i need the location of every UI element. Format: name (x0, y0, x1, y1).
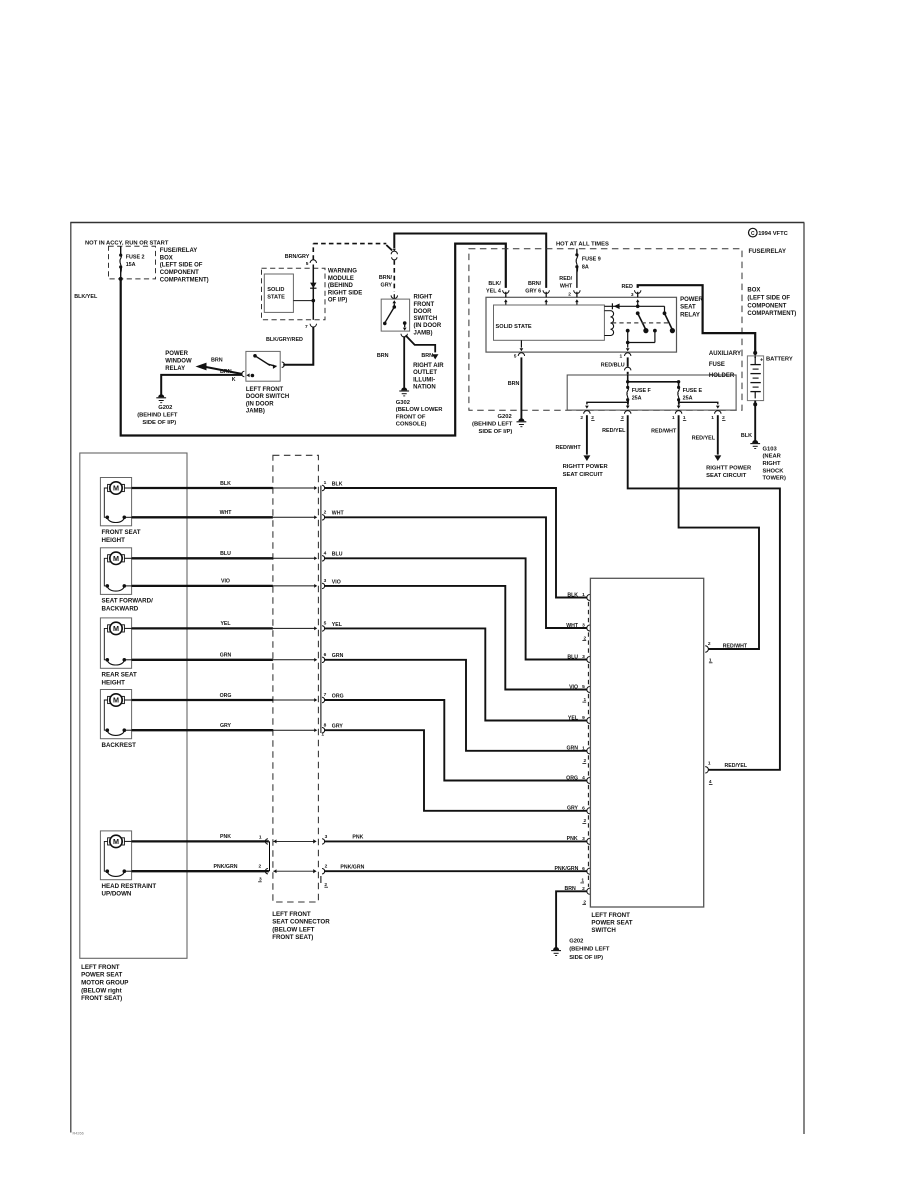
wire BLK battery to ground G103 (754, 401, 756, 442)
wire PNK/GRN motor5 to connector (132, 870, 269, 872)
svg-text:4: 4 (582, 775, 585, 781)
svg-text:1: 1 (582, 592, 585, 598)
fuse F2 (120, 246, 122, 255)
svg-text:(BELOW LEFT: (BELOW LEFT (272, 926, 314, 933)
wire BLK/YEL from fuse 2 down and around to relay pin 4 (121, 244, 506, 436)
svg-text:RIGHTT POWER: RIGHTT POWER (563, 464, 609, 470)
svg-text:BLU: BLU (220, 551, 231, 557)
svg-text:GRY: GRY (567, 806, 579, 812)
svg-text:BRN: BRN (508, 381, 520, 387)
svg-text:(IN DOOR: (IN DOOR (414, 323, 442, 329)
svg-text:RIGHT: RIGHT (414, 295, 433, 301)
svg-text:1: 1 (620, 354, 623, 360)
svg-text:TOWER): TOWER) (763, 476, 786, 482)
wire from door switch to warning module pin 7 (283, 327, 313, 365)
svg-text:SHOCK: SHOCK (763, 468, 785, 474)
pin 7 connector warning module (310, 324, 316, 327)
svg-text:DOOR SWITCH: DOOR SWITCH (246, 394, 289, 400)
svg-text:BOX: BOX (747, 288, 760, 294)
svg-text:VIO: VIO (569, 684, 578, 690)
svg-text:BLK/: BLK/ (488, 281, 501, 287)
svg-text:PNK/GRN: PNK/GRN (214, 864, 238, 870)
svg-text:(BELOW LOWER: (BELOW LOWER (396, 407, 444, 413)
svg-text:PNK/GRN: PNK/GRN (340, 864, 364, 870)
svg-text:(LEFT SIDE OF: (LEFT SIDE OF (160, 263, 203, 269)
svg-text:8A: 8A (582, 264, 589, 270)
wire BRN to power window relay (arrow) (204, 367, 242, 374)
wire PNK motor5 to connector (132, 840, 269, 842)
svg-text:RELAY: RELAY (165, 366, 185, 372)
svg-text:RED/YEL: RED/YEL (692, 435, 716, 441)
svg-text:R4266: R4266 (73, 1132, 84, 1136)
ground G202 (left) (158, 394, 164, 397)
wire BRN/GRY from relay pin 6 to junction connector (394, 234, 546, 288)
svg-text:SOLID STATE: SOLID STATE (496, 324, 532, 330)
connector pin 4 (322, 556, 325, 561)
svg-text:BLK: BLK (567, 592, 578, 598)
svg-text:4: 4 (324, 551, 327, 557)
wire ORG inside connector (273, 699, 315, 701)
svg-text:(BEHIND LEFT: (BEHIND LEFT (569, 947, 610, 953)
svg-text:3: 3 (582, 654, 585, 660)
svg-text:G202: G202 (498, 414, 512, 420)
wire YEL connector to switch pin (324, 628, 587, 720)
svg-text:BRN/: BRN/ (379, 275, 393, 281)
svg-text:25A: 25A (632, 396, 642, 402)
fuse/relay box (left, dashed) (109, 246, 156, 279)
copyright (749, 228, 758, 237)
svg-text:COMPARTMENT): COMPARTMENT) (747, 311, 796, 317)
warning module box (dashed) (262, 268, 326, 320)
wire GRY connector to switch pin (324, 730, 587, 811)
fuse E 25A (677, 386, 680, 389)
svg-text:FUSE/RELAY: FUSE/RELAY (160, 248, 197, 254)
svg-text:WARNING: WARNING (328, 269, 357, 275)
svg-text:5: 5 (514, 354, 517, 360)
svg-text:LEFT FRONT: LEFT FRONT (591, 912, 630, 919)
svg-text:RED/WHT: RED/WHT (651, 428, 677, 434)
svg-text:GRY: GRY (332, 724, 344, 730)
svg-text:POWER: POWER (680, 297, 703, 303)
wire RED from relay pin 3 to battery (638, 285, 756, 353)
svg-text:SIDE OF I/P): SIDE OF I/P) (569, 955, 603, 961)
svg-text:FUSE 2: FUSE 2 (126, 255, 145, 261)
svg-text:+: + (760, 357, 763, 363)
svg-text:7: 7 (305, 324, 308, 330)
svg-text:ORG: ORG (566, 775, 578, 781)
wire BLK inside connector (273, 487, 315, 489)
ground G202 (center) (518, 418, 524, 421)
svg-text:POWER SEAT: POWER SEAT (591, 920, 632, 927)
svg-text:M: M (113, 484, 119, 493)
fuse F 25A (627, 382, 629, 388)
connector pin 5 (322, 626, 325, 631)
svg-text:RED/YEL: RED/YEL (725, 763, 748, 769)
motor M3 rear seat height (100, 618, 131, 668)
svg-text:7: 7 (324, 692, 327, 698)
svg-text:FUSE F: FUSE F (632, 388, 652, 394)
wire BLK connector to switch pin (324, 488, 587, 598)
connector bracket line (right) (320, 486, 322, 734)
wire RED/YEL arrow to right power seat circuit (right) (717, 415, 719, 454)
svg-text:LEFT FRONT: LEFT FRONT (81, 964, 120, 971)
svg-text:M: M (113, 696, 119, 705)
wire GRY inside connector (273, 729, 315, 731)
connector left bracket (pnk pair) (269, 841, 271, 871)
svg-text:2: 2 (582, 886, 585, 892)
wire GRY motor to connector (132, 729, 273, 731)
svg-text:5: 5 (582, 684, 585, 690)
switch right pin 1 RED/YEL (705, 767, 708, 773)
svg-text:LEFT FRONT: LEFT FRONT (272, 911, 311, 918)
svg-text:GRN: GRN (220, 653, 232, 659)
svg-text:RIGHT AIR: RIGHT AIR (413, 363, 444, 369)
svg-text:JAMB): JAMB) (246, 409, 265, 415)
left front seat connector box (dashed) (273, 455, 319, 902)
svg-text:BLK: BLK (741, 433, 752, 439)
svg-text:FUSE E: FUSE E (683, 388, 703, 394)
svg-text:WINDOW: WINDOW (165, 359, 192, 365)
svg-text:POWER SEAT: POWER SEAT (81, 972, 122, 979)
svg-text:RIGHT SIDE: RIGHT SIDE (328, 290, 362, 296)
svg-text:6: 6 (582, 805, 585, 811)
wire BLK motor to connector (132, 487, 273, 489)
wire GRN inside connector (273, 659, 315, 661)
svg-text:WHT: WHT (560, 284, 573, 290)
svg-text:OUTLET: OUTLET (413, 370, 437, 376)
relay switch 1 (636, 311, 640, 315)
svg-text:3: 3 (582, 836, 585, 842)
svg-text:RIGHTT POWER: RIGHTT POWER (706, 465, 752, 471)
left front power seat switch box (590, 578, 703, 907)
svg-text:RED/WHT: RED/WHT (556, 445, 582, 451)
svg-text:RELAY: RELAY (680, 312, 700, 318)
wire VIO connector to switch pin (324, 586, 587, 690)
battery (753, 351, 757, 355)
svg-text:M: M (113, 837, 119, 846)
wire BLU inside connector (273, 557, 315, 559)
svg-text:BOX: BOX (160, 255, 173, 261)
svg-text:ORG: ORG (220, 693, 232, 699)
relay pin 5 internal (520, 340, 522, 347)
solid state box (264, 274, 293, 312)
svg-text:BLU: BLU (567, 654, 578, 660)
svg-text:RED: RED (622, 284, 633, 290)
connector pin 7 (322, 697, 325, 702)
svg-text:BRN: BRN (565, 886, 576, 892)
motor M4 backrest (100, 690, 131, 739)
svg-text:3: 3 (325, 834, 328, 840)
svg-text:COMPARTMENT): COMPARTMENT) (160, 277, 209, 283)
svg-text:HEIGHT: HEIGHT (102, 679, 126, 686)
svg-text:HEIGHT: HEIGHT (102, 537, 126, 544)
svg-text:2: 2 (580, 415, 583, 421)
auxiliary fuse holder box (567, 375, 736, 410)
svg-text:GRY: GRY (220, 723, 232, 729)
svg-text:5: 5 (324, 621, 327, 627)
motor M5 head restraint up/down (100, 831, 131, 880)
svg-text:SEAT FORWARD/: SEAT FORWARD/ (102, 598, 154, 605)
fuse holder bottom connectors + pin numbers (584, 411, 590, 414)
wire RED/YEL long run to switch pin 1 (628, 415, 780, 770)
svg-text:BACKWARD: BACKWARD (102, 605, 139, 612)
fuse F9 (576, 249, 578, 255)
wire YEL motor to connector (132, 627, 273, 629)
svg-text:(BEHIND LEFT: (BEHIND LEFT (137, 413, 178, 419)
svg-text:2: 2 (708, 641, 711, 647)
svg-text:BACKREST: BACKREST (102, 742, 137, 749)
relay top pin connectors 4 6 2 3 (503, 290, 509, 293)
svg-text:FRONT SEAT): FRONT SEAT) (272, 934, 313, 941)
connector pin 6 (322, 657, 325, 662)
svg-text:G302: G302 (396, 400, 410, 406)
svg-text:2: 2 (324, 510, 327, 516)
svg-text:5: 5 (306, 261, 309, 267)
svg-text:FUSE 9: FUSE 9 (582, 257, 601, 263)
svg-text:BLK/GRY/RED: BLK/GRY/RED (266, 337, 303, 343)
relay internal pin arrows (504, 299, 507, 302)
svg-text:FUSE: FUSE (709, 362, 725, 368)
wire VIO motor to connector (132, 585, 273, 587)
svg-text:HEAD RESTRAINT: HEAD RESTRAINT (102, 883, 157, 890)
svg-text:SIDE OF I/P): SIDE OF I/P) (478, 429, 512, 435)
svg-text:VIO: VIO (221, 579, 230, 585)
svg-text:PNK: PNK (220, 834, 231, 840)
svg-text:2: 2 (325, 863, 328, 869)
relay coil (604, 310, 610, 312)
svg-text:SOLID: SOLID (267, 287, 284, 293)
wire YEL inside connector (273, 627, 315, 629)
switch BRN pin wire to ground G202 (556, 891, 587, 948)
pin 5 connector warning module (310, 260, 316, 263)
svg-text:GRY 6: GRY 6 (525, 289, 541, 295)
svg-text:(BEHIND LEFT: (BEHIND LEFT (472, 422, 513, 428)
page frame (70, 223, 72, 1133)
svg-text:OF I/P): OF I/P) (328, 298, 347, 304)
svg-text:3: 3 (582, 623, 585, 629)
svg-text:AUXILIARY: AUXILIARY (709, 351, 741, 357)
svg-text:15A: 15A (126, 262, 136, 268)
wire RED/WHT arrow to right power seat circuit (left) (586, 415, 588, 454)
svg-text:YEL 4: YEL 4 (486, 289, 501, 295)
wire BRN to ground G302 (403, 336, 405, 388)
svg-text:SEAT: SEAT (680, 305, 696, 311)
svg-text:1: 1 (259, 834, 262, 840)
wire ORG connector to switch pin (324, 700, 587, 781)
warning module internal wire + diode (312, 265, 314, 320)
svg-text:(NEAR: (NEAR (763, 454, 782, 460)
svg-text:MODULE: MODULE (328, 276, 354, 282)
svg-text:NOT IN ACCY, RUN OR START: NOT IN ACCY, RUN OR START (85, 240, 169, 246)
right front door switch connector (391, 295, 397, 298)
svg-text:RED/YEL: RED/YEL (602, 428, 626, 434)
svg-text:PNK: PNK (352, 835, 363, 841)
relay pin 5 connector + BRN wire to G202 (518, 353, 524, 356)
svg-text:PNK/GRN: PNK/GRN (554, 866, 578, 872)
svg-text:VIO: VIO (332, 579, 341, 585)
svg-text:K: K (232, 377, 236, 383)
svg-text:SEAT CIRCUIT: SEAT CIRCUIT (706, 473, 747, 479)
svg-text:BRN: BRN (220, 369, 232, 375)
svg-text:1: 1 (582, 745, 585, 751)
svg-text:BATTERY: BATTERY (766, 357, 793, 363)
wire WHT inside connector (273, 516, 315, 518)
svg-text:SWITCH: SWITCH (591, 927, 616, 934)
motor M2 seat forward/backward (100, 548, 131, 595)
inline connector (junction) (391, 251, 397, 254)
svg-text:RED/WHT: RED/WHT (723, 643, 748, 649)
svg-text:6: 6 (324, 652, 327, 658)
svg-text:BLK/YEL: BLK/YEL (74, 294, 98, 300)
wire BLU motor to connector (132, 557, 273, 559)
svg-text:C: C (751, 231, 755, 237)
svg-text:WHT: WHT (566, 623, 579, 629)
wire VIO inside connector (273, 585, 315, 587)
wire RED/WHT long run to switch pin 2 (679, 415, 759, 649)
svg-text:FRONT: FRONT (414, 302, 435, 308)
svg-text:POWER: POWER (165, 351, 188, 357)
relay switch 2 (664, 306, 666, 313)
switch right pin 2 RED/WHT (705, 646, 708, 652)
connector pin 2 (322, 515, 325, 520)
wire PNK connector to switch (324, 840, 587, 842)
ground G302 (401, 387, 407, 390)
wire GRN motor to connector (132, 659, 273, 661)
left front door switch (246, 351, 280, 381)
svg-text:25A: 25A (683, 396, 693, 402)
svg-text:SEAT CIRCUIT: SEAT CIRCUIT (563, 472, 604, 478)
svg-text:G202: G202 (158, 405, 172, 411)
svg-text:FRONT OF: FRONT OF (396, 414, 426, 420)
wire PNK/GRN connector to switch (324, 870, 587, 872)
ground G202 (bottom) (553, 947, 559, 950)
svg-text:GRY: GRY (381, 282, 393, 288)
relay mechanical link (dashed) (612, 322, 668, 324)
relay pin 1 connector + RED/BLU wire (625, 353, 631, 356)
svg-text:REAR SEAT: REAR SEAT (102, 672, 138, 679)
svg-text:(BELOW right: (BELOW right (81, 987, 122, 994)
relay diode (604, 305, 664, 307)
svg-text:SWITCH: SWITCH (414, 316, 438, 322)
svg-text:YEL: YEL (332, 622, 343, 628)
wire ORG motor to connector (132, 699, 273, 701)
svg-text:JAMB): JAMB) (414, 330, 433, 336)
svg-text:BRN: BRN (377, 353, 389, 359)
connector pin 3 (322, 583, 325, 588)
motor M1 front seat height (100, 478, 131, 526)
svg-text:HOLDER: HOLDER (709, 373, 735, 379)
fuse E output branches (678, 400, 680, 405)
right front door switch (381, 299, 409, 331)
svg-text:8: 8 (324, 722, 327, 728)
svg-text:YEL: YEL (220, 621, 231, 627)
svg-text:GRN: GRN (332, 653, 344, 659)
svg-text:M: M (113, 624, 119, 633)
dashed wire BRN/GRY down to right front door switch (393, 260, 395, 291)
svg-text:COMPONENT: COMPONENT (160, 270, 199, 276)
svg-text:(LEFT SIDE OF: (LEFT SIDE OF (747, 295, 790, 301)
switch left edge connector arcs + bracket (587, 595, 590, 601)
svg-text:COMPONENT: COMPONENT (747, 303, 786, 309)
svg-text:9: 9 (582, 715, 585, 721)
svg-text:WHT: WHT (332, 511, 345, 517)
svg-text:BRN: BRN (211, 358, 223, 364)
ground G103 (752, 440, 758, 443)
wire BRN to ground G202 (161, 375, 242, 396)
solid state box (relay) (494, 305, 605, 340)
svg-text:1: 1 (708, 760, 711, 766)
svg-text:HOT AT ALL TIMES: HOT AT ALL TIMES (556, 242, 609, 248)
svg-text:STATE: STATE (267, 294, 285, 300)
svg-text:ORG: ORG (332, 693, 344, 699)
svg-text:G103: G103 (763, 446, 778, 452)
left front power seat motor group box (80, 453, 187, 958)
dashed wire BRN/GRY from warning module to junction (312, 244, 314, 260)
svg-text:M: M (113, 554, 119, 563)
svg-text:G202: G202 (569, 938, 583, 944)
svg-text:RED/BLU: RED/BLU (601, 362, 625, 368)
svg-text:BLU: BLU (332, 552, 343, 558)
fuse/relay box (dashed, right) (469, 249, 742, 411)
fuse holder internal rail (627, 375, 629, 382)
fuse F output branches (627, 400, 629, 405)
svg-text:FRONT SEAT): FRONT SEAT) (81, 995, 122, 1002)
svg-text:BRN: BRN (421, 353, 433, 359)
svg-text:FUSE/RELAY: FUSE/RELAY (749, 249, 786, 255)
svg-text:BRN/: BRN/ (528, 281, 542, 287)
svg-text:PNK: PNK (567, 836, 578, 842)
svg-text:2: 2 (259, 863, 262, 869)
svg-text:UP/DOWN: UP/DOWN (102, 891, 132, 898)
svg-text:NATION: NATION (413, 385, 436, 391)
svg-text:LEFT FRONT: LEFT FRONT (246, 387, 284, 393)
svg-text:CONSOLE): CONSOLE) (396, 422, 427, 428)
connector below right front door switch (401, 334, 407, 337)
svg-text:3: 3 (324, 578, 327, 584)
svg-text:SIDE OF I/P): SIDE OF I/P) (142, 420, 176, 426)
svg-text:2: 2 (568, 291, 571, 297)
connector pin 8 (322, 728, 325, 733)
power seat relay box (486, 297, 677, 352)
connector pin 1 (322, 485, 325, 490)
svg-text:BLK: BLK (332, 481, 343, 487)
wire BLU connector to switch pin (324, 558, 587, 659)
wire WHT connector to switch pin (324, 517, 587, 628)
svg-text:RIGHT: RIGHT (763, 461, 781, 467)
svg-text:BLK: BLK (220, 481, 231, 487)
relay output junction to pin 1 (628, 342, 655, 344)
wire BRN to right air outlet illumination (406, 335, 436, 352)
svg-text:6: 6 (582, 866, 585, 872)
svg-text:1: 1 (324, 480, 327, 486)
wire GRN connector to switch pin (324, 660, 587, 751)
wire WHT motor to connector (132, 516, 273, 518)
svg-text:1: 1 (711, 415, 714, 421)
svg-text:MOTOR GROUP: MOTOR GROUP (81, 980, 128, 987)
svg-text:RED/: RED/ (559, 276, 572, 282)
svg-text:SEAT CONNECTOR: SEAT CONNECTOR (272, 919, 330, 926)
svg-text:DOOR: DOOR (414, 309, 433, 315)
svg-text:1: 1 (672, 415, 675, 421)
svg-text:YEL: YEL (568, 715, 579, 721)
svg-text:GRN: GRN (566, 746, 578, 752)
svg-text:1994 VFTC: 1994 VFTC (758, 231, 788, 237)
svg-text:BRN/GRY: BRN/GRY (285, 254, 310, 260)
svg-text:FRONT SEAT: FRONT SEAT (102, 529, 141, 536)
svg-text:WHT: WHT (220, 510, 233, 516)
svg-text:ILLUMI-: ILLUMI- (413, 377, 435, 383)
svg-text:(IN DOOR: (IN DOOR (246, 401, 274, 407)
